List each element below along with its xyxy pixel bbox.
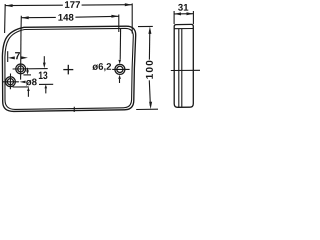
dim 13 upper arrowhead <box>43 63 46 69</box>
dim 100 lower extension line <box>136 108 158 110</box>
bottom centre tick <box>73 107 75 112</box>
centre hole H3 inner circle <box>117 66 123 72</box>
dim 148 right arrowhead <box>111 15 118 18</box>
dim 100 line upper segment <box>148 30 150 60</box>
dim 100 lower arrowhead <box>149 102 152 109</box>
side view inner vertical line 1 <box>178 29 180 108</box>
dim 13 lower extension line <box>39 83 53 85</box>
label dia 8 <box>26 79 37 86</box>
dim 31 right arrowhead <box>187 12 194 15</box>
hole H3 vertical centreline above <box>119 29 121 60</box>
side view bolt centreline <box>171 69 200 71</box>
label 7 <box>15 52 20 59</box>
hole H3 horizontal centreline <box>112 68 129 70</box>
dim 177 left extension line <box>4 4 7 33</box>
label 177 <box>65 1 80 8</box>
dim 177 right extension line <box>131 3 133 33</box>
mounting hole H2 inner circle <box>7 79 13 85</box>
dim 31 left extension tick <box>173 11 175 24</box>
centre hole H3 outer circle <box>115 64 125 74</box>
front view inner lens outline <box>5 28 133 109</box>
dim 13 lower arrow stem <box>45 88 47 93</box>
mounting hole H1 inner circle <box>18 66 24 72</box>
label 31 <box>178 4 188 11</box>
hole H1 horizontal centreline <box>13 68 48 70</box>
label dia 6,2 <box>92 63 111 71</box>
hole H2 vertical centreline <box>9 74 11 90</box>
dim 177 left arrowhead <box>5 4 12 7</box>
dim 100 upper extension line <box>138 25 153 27</box>
dim 177 line right segment <box>82 4 133 6</box>
dim 6,2 upper arrowhead <box>118 60 121 64</box>
front view outer body outline <box>2 26 135 111</box>
dim 177 right arrowhead <box>125 3 132 6</box>
mounting hole H2 outer circle <box>5 77 15 87</box>
centre mark + <box>63 69 73 71</box>
dim 8 lower extension line <box>13 86 29 88</box>
label 148 <box>58 14 73 21</box>
dim 100 line lower segment <box>149 80 150 106</box>
side view flange line <box>174 28 193 30</box>
dim 7 left arrowhead <box>8 56 15 59</box>
side view outline <box>174 24 193 107</box>
dim 100 upper arrowhead <box>148 27 151 34</box>
dim 8 lower arrowhead <box>27 87 30 91</box>
hole H2 horizontal centreline <box>2 81 19 83</box>
mounting hole H1 outer circle <box>16 64 26 74</box>
dim 13 lower arrowhead <box>45 84 48 88</box>
dim 8 upper arrowhead <box>26 70 29 74</box>
dim 148 line right segment <box>75 15 118 18</box>
dim 148 left extension line <box>20 16 22 32</box>
dim 31 right extension tick <box>192 11 194 24</box>
dim 6,2 lower arrowhead <box>118 75 121 79</box>
dim 148 right extension line <box>118 15 120 33</box>
dim 7 extension line <box>7 51 9 62</box>
side view inner vertical line 2 <box>181 29 183 108</box>
dim 31 left arrowhead <box>174 12 181 15</box>
label 13 <box>39 71 48 79</box>
dim 177 line left segment <box>5 4 63 6</box>
dim 8 lower arrow stem <box>27 91 29 97</box>
dim 148 left arrowhead <box>21 16 28 19</box>
dim 8 upper extension line <box>23 74 31 76</box>
dim 8 leader arrowhead to hole H2 <box>19 81 25 84</box>
dim 148 line left segment <box>21 16 56 18</box>
dim 13 upper extension (via hole H1 centreline) arrow stem <box>43 56 45 63</box>
dim 7 right arrowhead <box>21 56 28 59</box>
dim 31 line <box>174 13 193 15</box>
label 100 <box>146 61 153 79</box>
dim 8 upper arrow stem <box>27 68 29 71</box>
dim 6,2 lower arrow stem <box>119 79 121 83</box>
hole H1 vertical centreline <box>20 29 22 80</box>
